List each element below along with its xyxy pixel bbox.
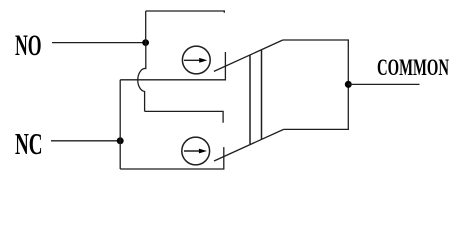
svg-text:COMMON: COMMON	[377, 55, 449, 81]
node NO junction dot	[142, 39, 149, 46]
actuator symbol circle 1	[182, 46, 210, 74]
node NC junction dot	[117, 137, 124, 144]
actuator arrow 1	[184, 59, 201, 61]
wire NO riser up	[145, 11, 147, 43]
wire pole-2 NC bottom line with fixed contact tick	[120, 147, 224, 169]
actuator symbol circle 2	[182, 137, 210, 165]
wire NO top line (pole-1 NO fixed contact)	[146, 11, 225, 13]
wire NO lead	[52, 42, 146, 44]
common plate outline (top, right, bottom edges)	[283, 40, 349, 129]
wire pole-1 NC line with fixed contact tick	[120, 52, 225, 80]
movable contact diagonal pole 1	[214, 40, 283, 71]
actuator arrow 2	[184, 150, 201, 152]
wire NO riser down with crossover hop	[138, 43, 146, 112]
wire NC riser up	[119, 80, 121, 141]
wire NC lead	[51, 140, 120, 142]
svg-text:NC: NC	[15, 126, 43, 161]
wire pole-2 NO line with fixed contact tick	[145, 111, 224, 122]
common bar end line 2	[261, 50, 263, 139]
wire NC riser down	[119, 141, 121, 169]
movable contact diagonal pole 2	[214, 129, 284, 161]
svg-text:NO: NO	[15, 30, 42, 62]
common bar end line 1	[249, 55, 251, 144]
node COMMON junction dot	[345, 81, 352, 88]
wire COMMON lead	[348, 83, 419, 85]
